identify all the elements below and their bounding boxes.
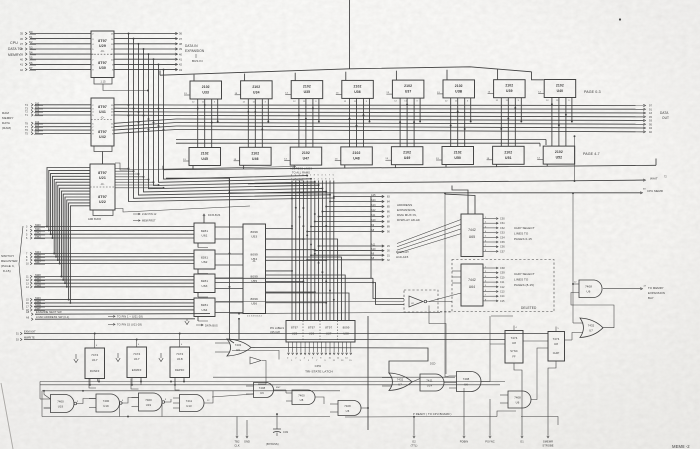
- latch 8281 U61: [194, 223, 215, 243]
- label: ADDRESS LINES TO ALL RAMS: [290, 167, 312, 183]
- wire: LOAD ADDRESS row: [26, 315, 195, 320]
- wire: column verticals RAM col 1: [197, 99, 219, 148]
- wire: nand feedback loops: [40, 379, 210, 418]
- label: CPU MEMR: [643, 189, 663, 194]
- or-gate 7432 U7 (a): [382, 373, 412, 391]
- wire: vertical from top edge: [349, 0, 351, 69]
- latch 8T97 U25 / U26 / U27 / U28: [286, 321, 355, 343]
- wire: U29 enable drop: [103, 84, 149, 91]
- wire: long lines into inverter: [215, 278, 404, 304]
- flip-flop 7474 U8 sync: [505, 326, 548, 364]
- ground arrow: [116, 353, 120, 362]
- label: P READY TO CPU BOARD: [413, 412, 452, 416]
- wire: column verticals RAM col 3: [298, 99, 320, 148]
- ground arrow: [159, 353, 163, 362]
- wire: bottom mid horizontals: [212, 312, 455, 397]
- wire: deleted dashed stub: [440, 311, 452, 313]
- ground arrow: [74, 354, 78, 363]
- wire: 8099 outputs to bundle: [266, 228, 350, 321]
- deleted dashed region: [404, 260, 554, 313]
- buffer U41 (8T97) / buffer U42 (8T97): [91, 98, 114, 146]
- RAM 2102 U50 (page 4-7): [436, 147, 474, 165]
- label: SWITCH REGISTER (PAGE 3, 8-15): [1, 226, 23, 310]
- wire: U21/U22 output pins onto staircase: [115, 168, 164, 189]
- and-gate 7408 U6 (c): [330, 401, 369, 416]
- wire: U6d output to sync FF: [445, 193, 505, 381]
- wire: vertical from CPU MEMR to U6f: [572, 135, 575, 323]
- label: page number MEM 8-2: [672, 444, 690, 449]
- wire: U29/U30 outputs to DATA IN expansion bus: [114, 32, 183, 72]
- flip-flop 7474 U17: [85, 343, 105, 379]
- RAM 2102 U52 (page 4-7): [537, 146, 575, 164]
- wire: address expansion arrows A8-A15: [306, 194, 390, 234]
- wire: centre address bundle verticals: [291, 175, 335, 321]
- label: ADDRESS EXPANSION DMA MUX IN DISPLAY A8-A15: [397, 203, 420, 222]
- wire: latch output pins: [287, 342, 352, 362]
- decoder 7442 U64 (deleted): [461, 264, 483, 306]
- RAM 2102 U3B (page 0-3): [437, 80, 475, 103]
- latch 8281 U64: [194, 298, 215, 317]
- wire: arrows under U64: [185, 319, 218, 328]
- wire: column verticals RAM col 5: [399, 98, 421, 147]
- wire: bundle into latch top: [338, 313, 349, 321]
- buffer U21 (8T97) / buffer U22 (8T97): [90, 164, 115, 210]
- wire: column verticals RAM col 7: [500, 98, 522, 147]
- and-gate 7408 U6 (a): [246, 383, 286, 398]
- label: WAIT: [650, 177, 667, 181]
- label: PAGE 4-7: [583, 152, 600, 156]
- RAM 2102 U39 (page 0-3): [488, 80, 525, 103]
- label: CHIP SELECT LINES TO PAGES 8-15: [514, 272, 535, 287]
- and-gate 7408 U6 (d): [449, 372, 481, 392]
- wire: RAM data input lines to U41/U42: [25, 102, 91, 135]
- wire: long vertical x=229: [229, 178, 234, 343]
- wire: U64 left inputs: [429, 271, 461, 302]
- nand-gate 7400 U19: [89, 394, 122, 412]
- wire: inverter branch down to gates: [429, 306, 513, 375]
- or-gate 7432 U9: [215, 339, 251, 356]
- RAM 2102 U46 (page 4-7): [234, 147, 272, 165]
- scan crease bottom-left: [1, 383, 13, 449]
- wire: inputs to 7442 U65: [445, 186, 475, 215]
- RAM 2102 U35 (page 0-3): [285, 81, 323, 104]
- wire: chip select fan U65: [483, 217, 505, 254]
- wire: column verticals RAM col 6: [450, 98, 472, 147]
- buffer triangle small: [250, 357, 266, 384]
- label: CHIP SELECT LINES TO PAGES 0-15: [514, 226, 535, 241]
- connector pin phase 1: [514, 363, 524, 444]
- wire: CPU data input lines to U29/U30: [20, 30, 91, 72]
- tri-state driver 8099 U53-U56: [243, 224, 266, 318]
- wire: extra address fan lines: [115, 163, 296, 212]
- latch 8281 U62: [194, 250, 215, 269]
- RAM 2102 U33 (page 0-3): [184, 81, 222, 104]
- wire: U7b output wrap to U6f: [571, 293, 614, 328]
- RAM 2102 U47 (page 4-7): [284, 147, 322, 165]
- RAM 2102 U51 (page 4-7): [487, 146, 524, 164]
- and-gate 7411 U13: [173, 391, 213, 412]
- wire: column verticals RAM col 8: [551, 98, 573, 147]
- enable sub-box of U41/U42: [94, 146, 112, 152]
- wire: long vertical x=371: [368, 197, 371, 431]
- and-gate 7411 U14: [412, 374, 457, 391]
- label: DELETED: [521, 306, 537, 310]
- and-gate 7408 U6 (f) memory expansion: [573, 280, 602, 298]
- wire: display address arrows: [306, 243, 390, 262]
- wire: lower bus under RAM row 2: [163, 159, 656, 170]
- wire: CPU MEMR line: [166, 178, 643, 194]
- connector pin PSYNC: [485, 399, 494, 444]
- wire: U65 left inputs: [397, 220, 461, 254]
- connector pin SMEMR: [542, 363, 556, 448]
- connector pin phase 2 TTL: [411, 416, 418, 448]
- RAM 2102 U48 (page 4-7): [335, 147, 373, 165]
- wire: column verticals RAM col 2: [247, 99, 269, 148]
- or-gate 7432 U7 (b): [565, 318, 604, 340]
- scan speck top-right: [619, 18, 621, 20]
- inverter 7404: [409, 296, 452, 307]
- wire: U41/U42 outputs into memory bus: [114, 105, 176, 134]
- RAM 2102 U36 (page 0-3): [336, 80, 374, 103]
- nand-gate 7400 U19: [132, 393, 165, 411]
- wire: CPU address staircase to centre address bundle: [128, 34, 335, 202]
- label: CPU DATA TO MEMORY: [8, 41, 23, 57]
- flip-flop 7474 U17: [127, 342, 147, 378]
- label: PAGE 0-3: [584, 90, 601, 94]
- label: TO MEMRY EXPANSION BAY: [648, 286, 665, 300]
- capacitor C49 bypass: [266, 413, 289, 446]
- wire: column verticals RAM col 4: [349, 98, 371, 146]
- wire: control rows from left edge: [16, 331, 548, 343]
- wire: switch register staircase into U21/U22: [46, 168, 90, 304]
- wire: enable drop U41 to U21: [102, 152, 104, 165]
- connector pin PDBIN: [460, 388, 468, 444]
- label: pin notes under U21/U22: [133, 213, 157, 223]
- connector pin GND: [244, 420, 250, 444]
- wire: switch register input rows: [26, 224, 194, 312]
- connector pin TB2: [234, 417, 240, 448]
- label: TO PIN 1 (U21-28): [108, 315, 143, 319]
- decoder 7442 U65: [461, 214, 483, 257]
- flip-flop 7474 U18: [170, 342, 190, 378]
- buffer U29 (8T97) / buffer U30 (8T97): [91, 31, 114, 78]
- wire: flip-flop to gate wiring: [40, 378, 505, 417]
- wire: deleted dashed bottom line: [440, 311, 452, 313]
- RAM 2102 U49 (page 4-7): [385, 147, 423, 165]
- and-gate 7408 U6 (e): [500, 348, 548, 408]
- label: latch note: [270, 327, 285, 334]
- RAM 2102 U40 (page 0-3): [538, 80, 576, 103]
- label: TO PIN 15 (U21-28): [108, 323, 142, 327]
- wire: U6f output to memory expansion bay: [603, 286, 647, 290]
- and-gate 7408 U8 (b): [286, 390, 324, 405]
- label: DATA OUT: [660, 111, 669, 120]
- wire: EXAMINE NEXT row: [26, 310, 210, 316]
- enable sub-box of U29/U30: [94, 78, 112, 85]
- wire: U9 output loop under latch: [238, 318, 436, 374]
- label: CPU TRI-STATE LATCH: [305, 364, 333, 374]
- label: DISPLAY A10-A15: [396, 250, 409, 259]
- flip-flop 7474 U8 chip: [548, 327, 565, 364]
- enable sub-box of U21/U22: [88, 210, 113, 221]
- wire: memory data/address bus between RAM rows: [176, 104, 652, 146]
- nand-gate 7400 U19: [44, 395, 77, 413]
- wire: bottom long horizontals: [345, 411, 558, 425]
- wire: top supply bus over RAM row 1: [160, 67, 544, 81]
- RAM 2102 U34 (page 0-3): [235, 81, 273, 104]
- wire: chip select fan U64: [483, 266, 505, 303]
- wire: 8281 interconnects: [198, 214, 243, 321]
- RAM 2102 U37 (page 0-3): [386, 80, 424, 103]
- wire: WAIT line: [248, 179, 646, 184]
- RAM 2102 U45 (page 4-7): [183, 148, 221, 166]
- label: RAM MEMRY DATA (RAM): [2, 111, 14, 130]
- label: DATA IN EXPANSION BUS: [185, 44, 205, 63]
- latch 8281 U63: [194, 274, 215, 293]
